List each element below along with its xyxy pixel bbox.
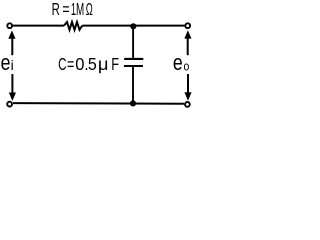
svg-text:C: C	[58, 54, 67, 74]
label R=1MΩ	[52, 0, 93, 19]
svg-text:=: =	[67, 54, 74, 74]
svg-text:o: o	[184, 58, 190, 73]
label e_i	[1, 50, 14, 75]
input voltage arrow up (left)	[8, 30, 15, 55]
resistor R	[64, 22, 82, 30]
svg-text:M: M	[76, 0, 84, 19]
terminal top-left	[7, 23, 12, 28]
wire capacitor bottom lead	[132, 67, 134, 103]
output voltage arrow down (right)	[184, 74, 191, 101]
wire top rail right segment	[82, 25, 184, 27]
output voltage arrow up (right)	[184, 30, 191, 55]
terminal bottom-right	[185, 102, 190, 107]
svg-text:e: e	[173, 50, 183, 75]
wire capacitor top lead	[132, 26, 134, 58]
svg-text:i: i	[11, 57, 14, 73]
svg-text:F: F	[111, 54, 119, 74]
svg-text:5: 5	[88, 54, 97, 74]
svg-text:e: e	[1, 50, 11, 75]
terminal bottom-left	[7, 102, 12, 107]
node junction dot bottom	[130, 100, 136, 106]
input voltage arrow down (left)	[9, 74, 16, 101]
label e_o	[173, 50, 189, 75]
svg-text:R: R	[52, 0, 60, 19]
label C=0.5μF	[58, 54, 119, 74]
svg-text:μ: μ	[98, 54, 109, 74]
wire bottom rail	[13, 102, 184, 105]
capacitor C	[124, 59, 143, 66]
svg-text:Ω: Ω	[86, 0, 93, 19]
wire top rail left segment	[13, 25, 64, 27]
terminal top-right	[185, 23, 190, 28]
node junction dot top (capacitor tap)	[130, 23, 136, 29]
svg-text:=: =	[62, 0, 69, 19]
svg-text:0: 0	[75, 54, 84, 74]
